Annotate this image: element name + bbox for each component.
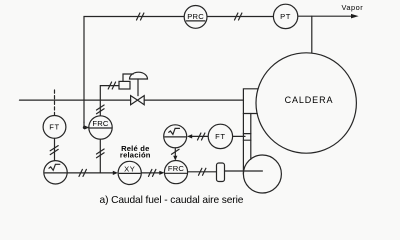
- arrowhead left into sqrt air: [187, 134, 192, 138]
- svg-text:XY: XY: [124, 165, 135, 174]
- wire positioner to dome: [123, 74, 133, 81]
- signal break slashes on vertical FRC output: [97, 105, 105, 114]
- steam line from junction down to caldera: [311, 16, 313, 53]
- arrowhead into XY: [113, 171, 118, 175]
- orifice tick lower in duct: [243, 139, 250, 141]
- wire XY to FRC air: [141, 172, 160, 174]
- wire FT fuel to sqrt fuel: [54, 138, 56, 160]
- label Vapor: [342, 3, 364, 12]
- svg-text:a) Caudal fuel - caudal aire s: a) Caudal fuel - caudal aire serie: [100, 195, 244, 206]
- signal break slashes sqrt air-FRC air: [172, 149, 180, 154]
- relay XY: [118, 161, 141, 184]
- instrument FT air: [208, 124, 232, 148]
- signal break slashes on branch: [97, 149, 105, 158]
- junction dot PRC setpoint: [83, 126, 86, 129]
- instrument FRC fuel: [89, 116, 112, 139]
- caldera vessel: [256, 53, 356, 153]
- svg-text:PT: PT: [280, 12, 291, 21]
- wire PRC output left segment: [84, 17, 184, 123]
- instrument FT fuel: [43, 116, 66, 139]
- arrowhead into FRC air: [159, 171, 164, 175]
- signal break slashes sqrt-XY: [79, 169, 86, 176]
- air duct left wall: [242, 114, 244, 175]
- wire FRC fuel output to positioner: [100, 86, 119, 116]
- svg-text:FRC: FRC: [168, 164, 185, 173]
- wire actuator to blower inlet vane: [225, 170, 263, 172]
- signal break slashes XY-FRC: [149, 169, 156, 176]
- fuel pipe left of valve: [20, 99, 131, 101]
- branch wire up to FRC fuel measurement: [99, 139, 101, 173]
- damper actuator element: [217, 163, 225, 182]
- wire sqrt fuel to relay XY: [67, 172, 113, 174]
- wire FT air to sqrt air: [192, 135, 209, 137]
- instrument FRC air: [164, 161, 187, 184]
- wire FRC air output to damper actuator: [188, 171, 217, 173]
- signal break slashes on PRC left wire: [137, 13, 144, 20]
- svg-text:CALDERA: CALDERA: [285, 95, 334, 105]
- svg-text:PRC: PRC: [187, 12, 204, 21]
- blower fan: [243, 155, 281, 193]
- valve positioner box: [119, 81, 130, 89]
- vapor arrowhead: [351, 14, 359, 19]
- signal break slashes FT air-sqrt air: [198, 133, 205, 140]
- square root extractor air: [164, 125, 187, 148]
- burner box on caldera: [243, 89, 258, 114]
- wire FT air to duct tap: [233, 135, 245, 137]
- instrument PRC: [184, 6, 207, 29]
- svg-text:Vapor: Vapor: [342, 3, 364, 12]
- arrowhead into FRC fuel: [84, 122, 89, 130]
- valve stem: [137, 79, 139, 96]
- signal break slashes FT-sqrt: [50, 146, 58, 155]
- square root extractor fuel: [44, 161, 67, 184]
- fuel pipe right of valve: [144, 99, 243, 101]
- control valve body: [131, 96, 145, 105]
- label ratio relay: [120, 144, 151, 159]
- svg-text:FRC: FRC: [92, 119, 109, 128]
- arrowhead down into FRC air: [173, 156, 177, 161]
- instrument PT: [273, 4, 297, 28]
- caption text: [100, 195, 244, 206]
- wire PT to vapor arrow: [298, 15, 352, 17]
- air duct right wall: [250, 114, 252, 160]
- orifice tick upper in duct: [243, 133, 250, 135]
- signal break slashes on horizontal into positioner: [108, 82, 115, 89]
- signal break slashes on PRC-PT wire: [235, 13, 242, 20]
- svg-text:FT: FT: [215, 132, 225, 141]
- signal break slashes FRC air output: [199, 168, 206, 175]
- valve diaphragm actuator dome: [130, 72, 148, 79]
- wire sqrt air down to FRC air: [174, 148, 176, 157]
- svg-text:relación: relación: [120, 150, 151, 159]
- svg-text:FT: FT: [49, 123, 59, 132]
- dashed tap from fuel pipe to FT: [54, 90, 56, 115]
- wire PRC to PT: [207, 16, 273, 18]
